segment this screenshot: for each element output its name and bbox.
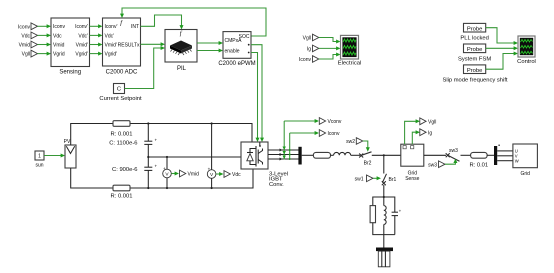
svg-text:Iconv: Iconv — [18, 24, 30, 30]
svg-text:R: 0.001: R: 0.001 — [111, 131, 133, 137]
wire Vgll to Electrical scope — [319, 38, 341, 44]
svg-text:R: 0.001: R: 0.001 — [111, 194, 133, 200]
wire Probe2 to Control scope — [486, 46, 518, 50]
wire Vmid meter to triangle — [171, 172, 179, 176]
block 3-Level IGBT converter — [241, 142, 268, 169]
svg-text:Vdc': Vdc' — [78, 33, 88, 39]
wire Vdc to Sensing — [38, 33, 52, 37]
svg-text:PIL: PIL — [177, 66, 187, 72]
resistor R 0.001 bottom — [111, 185, 133, 199]
svg-text:sw1: sw1 — [355, 176, 364, 182]
wire Vdc meter to triangle — [216, 172, 224, 176]
svg-text:+: + — [155, 138, 158, 143]
block Probe System FSM — [458, 44, 491, 63]
port triangle Iconv out — [319, 130, 325, 137]
wire Probe3 to Control scope — [486, 52, 518, 70]
port triangle Vconv — [319, 118, 325, 125]
svg-text:Slip mode frequency shift: Slip mode frequency shift — [442, 77, 507, 83]
RLC load inductor — [384, 197, 386, 224]
wire Ig to Electrical scope — [319, 46, 341, 50]
voltmeter Vdc — [207, 122, 216, 189]
label 3-Level IGBT Conv — [269, 171, 288, 187]
svg-text:SOC: SOC — [239, 34, 250, 40]
port triangle Ig out — [420, 129, 426, 136]
wire Grid Sense to sw3 — [424, 154, 446, 156]
breaker Br1 — [382, 174, 397, 197]
svg-text:PLL locked: PLL locked — [460, 36, 488, 42]
inductor series RL branch — [334, 152, 351, 155]
wire phase B — [268, 153, 299, 156]
block C2000 ADC — [103, 18, 141, 75]
svg-text:Vmid: Vmid — [53, 42, 65, 48]
wire Iconv to Electrical scope — [319, 53, 341, 60]
bus bar converter side — [298, 147, 301, 165]
port triangle Vmid — [31, 41, 38, 48]
wire Vmid to Sensing — [38, 43, 52, 47]
svg-text:Vgll: Vgll — [22, 52, 30, 58]
svg-text:Br2: Br2 — [364, 161, 372, 167]
wire L to Br2 — [351, 154, 361, 156]
resistor series RL branch — [313, 152, 330, 158]
svg-text:Ig: Ig — [307, 46, 311, 52]
svg-text:Conv.: Conv. — [269, 182, 284, 188]
svg-text:Vdc: Vdc — [53, 33, 62, 39]
wire Vgll to Sensing — [38, 52, 52, 56]
port triangle sw1 — [367, 175, 374, 182]
svg-text:Vgrid': Vgrid' — [105, 52, 118, 58]
wire Iconv measurement tap — [289, 131, 319, 160]
block Current Setpoint C — [99, 84, 142, 102]
svg-text:1: 1 — [38, 154, 41, 160]
svg-text:Vgll: Vgll — [303, 35, 311, 41]
wire Grid Sense to Vgll tag — [405, 119, 420, 144]
svg-text:Iconv': Iconv' — [105, 24, 118, 30]
block C2000 ePWM — [218, 32, 255, 67]
svg-text:C2000 ADC: C2000 ADC — [106, 69, 138, 75]
svg-text:INT: INT — [131, 24, 139, 30]
wire Sensing Vmid' to ADC — [90, 43, 103, 47]
port triangle sw2 — [356, 138, 363, 145]
wire bus to series R — [302, 154, 314, 156]
svg-text:C: 900e-6: C: 900e-6 — [112, 167, 137, 173]
wire RESULTx to PIL — [141, 42, 166, 46]
svg-text:W: W — [515, 158, 519, 163]
breaker Br2 — [359, 152, 401, 167]
svg-text:Probe: Probe — [467, 68, 482, 74]
wire INT to PIL trigger — [141, 15, 184, 30]
svg-text:C: 1100e-6: C: 1100e-6 — [109, 141, 137, 147]
block Probe PLL locked — [460, 23, 488, 41]
svg-text:R: 0.01: R: 0.01 — [469, 163, 488, 169]
svg-text:+: + — [399, 208, 402, 213]
port triangle Vdc — [224, 171, 230, 178]
svg-text:+: + — [163, 166, 166, 171]
svg-text:Iconv: Iconv — [53, 24, 65, 30]
svg-text:Vdc': Vdc' — [105, 33, 115, 39]
block sun constant — [35, 151, 44, 169]
svg-text:Vmid': Vmid' — [76, 42, 88, 48]
svg-text:Sense: Sense — [405, 176, 419, 182]
wire Current Setpoint to PIL — [125, 46, 166, 89]
port triangle Vgll — [31, 50, 38, 57]
svg-text:Vgrid': Vgrid' — [75, 52, 88, 58]
wire ePWM out1 to IGBT gate — [251, 45, 264, 142]
svg-text:Vmid: Vmid — [19, 43, 31, 49]
wire Probe1 to Control scope — [486, 28, 518, 45]
wire phase A — [268, 149, 299, 152]
breaker sw3 — [446, 148, 471, 161]
port triangle Ig scope — [313, 45, 319, 52]
wire sw2 to Br2 — [363, 141, 370, 152]
wire grid phase C — [497, 160, 513, 162]
port triangle sw3 — [439, 161, 446, 168]
svg-text:Br1: Br1 — [389, 177, 397, 183]
port triangle Vmid — [180, 170, 186, 177]
capacitor C 900e-6 — [112, 157, 157, 189]
svg-text:+: + — [208, 167, 211, 172]
svg-text:C: C — [117, 87, 121, 93]
svg-text:C2000 ePWM: C2000 ePWM — [218, 61, 255, 67]
wire sw1 to Br1 — [373, 176, 381, 180]
svg-text:Current Setpoint: Current Setpoint — [99, 96, 142, 102]
svg-text:Iconv': Iconv' — [75, 24, 88, 30]
wire R to grid bus — [487, 154, 494, 156]
ground electrode — [376, 248, 393, 267]
block PIL — [165, 30, 197, 72]
capacitor C 1100e-6 — [109, 122, 157, 157]
wire ePWM out2 to IGBT gate — [251, 53, 260, 143]
wire R to L — [331, 154, 334, 156]
wire Iconv to Sensing — [38, 24, 52, 28]
svg-text:Sensing: Sensing — [59, 69, 81, 75]
block Grid — [513, 144, 538, 177]
RLC load capacitor — [392, 208, 402, 234]
svg-text:Vdc: Vdc — [232, 172, 241, 178]
svg-text:sw2: sw2 — [346, 139, 355, 145]
wire PIL to ePWM enable — [197, 49, 223, 53]
svg-text:enable: enable — [225, 48, 240, 54]
RLC load bottom rail — [373, 223, 395, 248]
scope Control — [517, 36, 536, 65]
svg-text:Iconv: Iconv — [299, 57, 311, 63]
svg-text:Probe: Probe — [467, 47, 482, 53]
svg-text:Electrical: Electrical — [338, 61, 362, 67]
resistor R 0.001 top — [111, 121, 133, 138]
wire DC top rail — [71, 124, 252, 146]
svg-text:Control: Control — [517, 59, 536, 65]
wire grid phase A — [497, 150, 513, 152]
RLC load resistor — [370, 206, 375, 223]
svg-text:Vdc: Vdc — [21, 33, 30, 39]
wire Sensing Iconv' to ADC — [90, 24, 103, 28]
svg-text:+: + — [155, 164, 158, 169]
svg-text:Ig: Ig — [428, 130, 432, 136]
svg-text:sw3: sw3 — [428, 162, 437, 168]
wire phase C — [268, 158, 299, 161]
svg-text:sw3: sw3 — [449, 148, 458, 154]
port triangle Vgll scope — [313, 34, 319, 41]
svg-text:PV: PV — [64, 139, 71, 145]
wire junction to Br1 — [383, 154, 385, 173]
port triangle Iconv scope — [313, 56, 319, 63]
wire SOC to ADC trigger — [120, 8, 266, 36]
resistor R 0.01 — [469, 152, 488, 168]
wire Vconv measurement tap — [283, 119, 320, 160]
svg-text:RESULTx: RESULTx — [118, 42, 140, 48]
wire DC midpoint node — [147, 156, 241, 158]
wire PIL to ePWM CMPxA — [197, 41, 223, 45]
wire Sensing Vdc' to ADC — [90, 33, 103, 37]
svg-text:Vconv: Vconv — [328, 119, 342, 125]
port triangle Iconv — [31, 23, 38, 30]
svg-text:Vmid': Vmid' — [105, 42, 117, 48]
port triangle Vdc — [31, 32, 38, 39]
svg-text:System FSM: System FSM — [458, 57, 491, 63]
RLC load top rail — [373, 196, 395, 212]
wire grid phase B — [497, 155, 513, 157]
wire sw3 to breaker — [445, 159, 457, 165]
svg-text:Vmid: Vmid — [188, 172, 200, 178]
wire sun to PV — [44, 154, 65, 158]
voltmeter Vmid — [163, 157, 172, 189]
scope Electrical — [338, 35, 362, 66]
wire Grid Sense to Ig tag — [412, 130, 420, 144]
block Probe Slip mode frequency shift — [442, 65, 507, 84]
svg-text:Vgrid: Vgrid — [53, 52, 65, 58]
svg-text:Grid: Grid — [520, 171, 530, 177]
wire DC bottom rail — [71, 168, 253, 188]
bus bar grid side — [494, 145, 500, 165]
svg-text:Vgll: Vgll — [428, 119, 436, 125]
wire Sensing Vgrid' to ADC — [90, 52, 103, 56]
svg-text:sun: sun — [35, 163, 43, 169]
port triangle Vgll out — [420, 118, 426, 125]
block PV panel — [64, 139, 76, 168]
block Grid Sense — [401, 144, 424, 182]
block Sensing — [51, 18, 90, 75]
svg-text:Iconv: Iconv — [328, 131, 340, 137]
svg-text:Probe: Probe — [467, 26, 482, 32]
